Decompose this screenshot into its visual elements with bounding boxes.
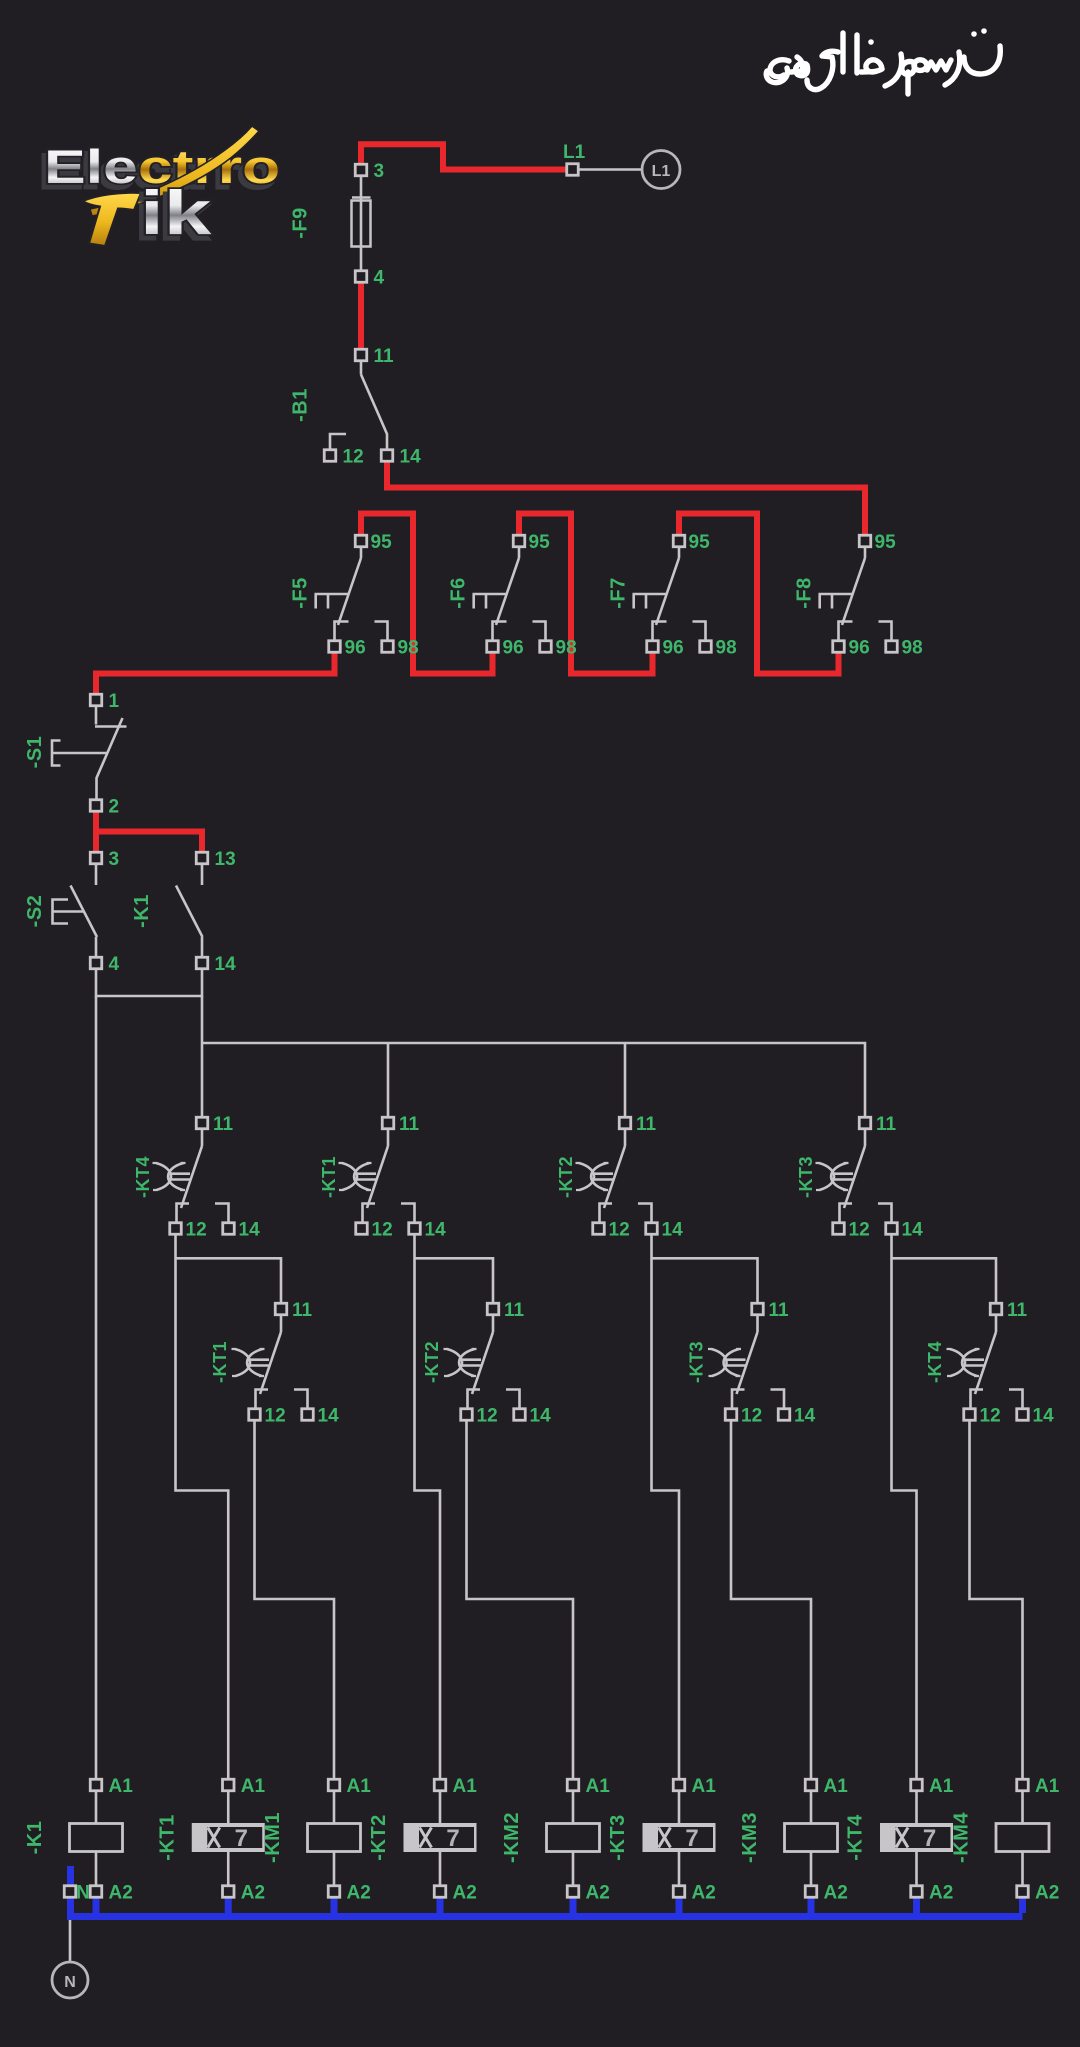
svg-text:-KT1: -KT1 bbox=[210, 1341, 230, 1383]
coil KT3 bbox=[678, 1791, 681, 1887]
svg-text:-KT1: -KT1 bbox=[319, 1156, 339, 1198]
svg-text:-K1: -K1 bbox=[24, 1821, 46, 1855]
svg-text:-KM4: -KM4 bbox=[951, 1812, 973, 1863]
wire terminal L1 to lamp L1 bbox=[578, 168, 641, 171]
svg-text:A1: A1 bbox=[1035, 1776, 1060, 1797]
svg-text:-B1: -B1 bbox=[290, 388, 312, 422]
wire row2 timer contact 12 to KM coil A1 (column 334) bbox=[255, 1421, 335, 1781]
timed contact KT2 row1 (pins 11/12/14) bbox=[576, 1114, 684, 1241]
pin A2 KM2 bbox=[567, 1886, 579, 1898]
terminal N bbox=[64, 1886, 76, 1898]
svg-text:14: 14 bbox=[400, 447, 422, 468]
wire (red) S1 pin 2 to S2 pin 3 bbox=[93, 811, 99, 854]
wire K1 coil rail (left) bbox=[95, 996, 98, 1780]
pin A1 KT1 bbox=[223, 1779, 235, 1791]
svg-text:-KT4: -KT4 bbox=[133, 1156, 153, 1198]
pin A1 KM3 bbox=[805, 1779, 817, 1791]
svg-text:-F8: -F8 bbox=[794, 577, 816, 609]
coil KM1 bbox=[333, 1791, 336, 1887]
svg-text:-KT3: -KT3 bbox=[687, 1341, 707, 1383]
svg-text:A2: A2 bbox=[109, 1883, 133, 1904]
pin 11 B1 bbox=[355, 349, 367, 361]
pin A1 KT4 bbox=[911, 1779, 923, 1791]
wire (red) F7.96 to F6.95 bbox=[519, 514, 653, 674]
fuse F9 bbox=[352, 176, 371, 271]
wire (red) branch to K1 pin 13 bbox=[96, 832, 202, 854]
pin 4 S2 bbox=[90, 957, 102, 969]
svg-text:3: 3 bbox=[374, 161, 385, 182]
signature text (Persian handwriting) bbox=[766, 28, 1000, 94]
svg-text:4: 4 bbox=[374, 268, 385, 289]
timed contact KT4 row1 (pins 11/12/14) bbox=[153, 1114, 261, 1241]
svg-text:-S1: -S1 bbox=[24, 736, 46, 769]
svg-text:A1: A1 bbox=[109, 1776, 134, 1797]
pin A2 KT1 bbox=[223, 1886, 235, 1898]
wire row1 timer contact to row2 contact 11 and to coil A1 (column 679) bbox=[652, 1235, 758, 1781]
svg-text:N: N bbox=[76, 1883, 90, 1904]
pin 3 S2 bbox=[90, 852, 102, 864]
pin 14 B1 bbox=[381, 450, 393, 462]
svg-text:12: 12 bbox=[343, 447, 364, 468]
wire row2 timer contact 12 to KM coil A1 (column 573) bbox=[467, 1421, 574, 1781]
wire coil A2 to neutral bus (blue) bbox=[225, 1895, 232, 1913]
timed contact KT3 row2 (pins 11/12/14) bbox=[708, 1300, 816, 1427]
start button S2 (NO) bbox=[53, 864, 98, 958]
svg-text:-KM2: -KM2 bbox=[501, 1812, 523, 1863]
svg-text:L1: L1 bbox=[652, 163, 671, 180]
wire coil A2 to neutral bus (blue) bbox=[808, 1895, 815, 1913]
pin A2 KM4 bbox=[1017, 1886, 1029, 1898]
svg-text:1: 1 bbox=[109, 691, 120, 712]
wire coil A2 to neutral bus (blue) bbox=[437, 1895, 444, 1913]
wire row2 timer contact 12 to KM coil A1 (column 811) bbox=[731, 1421, 811, 1781]
pin A1 KT2 bbox=[434, 1779, 446, 1791]
wire coil A2 to neutral bus (blue) bbox=[93, 1895, 100, 1913]
terminal L1 bbox=[567, 164, 579, 176]
svg-text:4: 4 bbox=[109, 954, 120, 975]
svg-text:13: 13 bbox=[215, 849, 236, 870]
svg-text:ik: ik bbox=[140, 178, 212, 248]
svg-text:-KM1: -KM1 bbox=[262, 1812, 284, 1863]
wire coil A2 to neutral bus (blue) bbox=[676, 1895, 683, 1913]
wire row2 timer contact 12 to KM coil A1 (column 1022.5) bbox=[970, 1421, 1023, 1781]
pin 3 F9 bbox=[355, 164, 367, 176]
wire row1 timer contact to row2 contact 11 and to coil A1 (column 440) bbox=[415, 1235, 494, 1781]
wire coil A2 to neutral bus (blue) bbox=[1019, 1895, 1026, 1913]
timed contact KT2 row2 (pins 11/12/14) bbox=[444, 1300, 552, 1427]
svg-text:A2: A2 bbox=[692, 1883, 716, 1904]
auxiliary contact K1 (NO) bbox=[176, 864, 203, 958]
pin 12 B1 bbox=[324, 450, 336, 462]
wire (red) fuse F9 pin4 to B1 pin 11 bbox=[358, 281, 364, 350]
svg-text:N: N bbox=[64, 1974, 76, 1991]
svg-text:A2: A2 bbox=[241, 1883, 265, 1904]
svg-text:14: 14 bbox=[215, 954, 237, 975]
svg-text:-KT3: -KT3 bbox=[607, 1814, 629, 1860]
pin A2 KM3 bbox=[805, 1886, 817, 1898]
svg-text:-F6: -F6 bbox=[448, 577, 470, 609]
coil KT2 bbox=[439, 1791, 442, 1887]
svg-text:-KT4: -KT4 bbox=[925, 1341, 945, 1383]
pin A1 K1 bbox=[90, 1779, 102, 1791]
svg-text:A1: A1 bbox=[453, 1776, 478, 1797]
wire (red) F5.96 to S1 pin 1 bbox=[96, 652, 335, 696]
pin A1 KM2 bbox=[567, 1779, 579, 1791]
timed contact KT1 row1 (pins 11/12/14) bbox=[339, 1114, 447, 1241]
timed contact KT4 row2 (pins 11/12/14) bbox=[947, 1300, 1055, 1427]
svg-text:-F7: -F7 bbox=[608, 577, 630, 609]
pin A2 K1 bbox=[90, 1886, 102, 1898]
svg-text:A2: A2 bbox=[824, 1883, 848, 1904]
svg-text:11: 11 bbox=[374, 346, 395, 367]
svg-text:3: 3 bbox=[109, 849, 120, 870]
svg-text:A2: A2 bbox=[347, 1883, 371, 1904]
wire coil A2 to neutral bus (blue) bbox=[913, 1895, 920, 1913]
wire row1 timer contact to row2 contact 11 and to coil A1 (column 916.5) bbox=[892, 1235, 997, 1781]
pin 13 K1 bbox=[196, 852, 208, 864]
wire coil A2 to neutral bus (blue) bbox=[570, 1895, 577, 1913]
wire distribution bus to timer contacts row 1 bbox=[202, 996, 865, 1118]
wire S2.4 / K1.14 junction to K1 coil rail bbox=[96, 969, 202, 997]
timed contact KT1 row2 (pins 11/12/14) bbox=[232, 1300, 340, 1427]
svg-text:A2: A2 bbox=[929, 1883, 953, 1904]
svg-text:A1: A1 bbox=[347, 1776, 372, 1797]
pin A2 KT3 bbox=[673, 1886, 685, 1898]
svg-text:-S2: -S2 bbox=[24, 895, 46, 928]
pin 1 S1 bbox=[90, 694, 102, 706]
svg-text:-F9: -F9 bbox=[290, 207, 312, 239]
coil KT1 bbox=[227, 1791, 230, 1887]
svg-text:A1: A1 bbox=[586, 1776, 611, 1797]
svg-text:A1: A1 bbox=[824, 1776, 849, 1797]
svg-text:A1: A1 bbox=[929, 1776, 954, 1797]
pin 14 K1 bbox=[196, 957, 208, 969]
coil K1 bbox=[95, 1791, 98, 1887]
wire L1 feed (red) from pin 3 up and right to terminal L1 bbox=[361, 144, 566, 169]
lamp L1 bbox=[642, 151, 680, 189]
wire (red) F6.96 to F5.95 bbox=[361, 514, 493, 674]
svg-text:-KT1: -KT1 bbox=[156, 1814, 178, 1860]
svg-text:-KT2: -KT2 bbox=[556, 1156, 576, 1198]
pin A1 KM4 bbox=[1017, 1779, 1029, 1791]
svg-text:-KT2: -KT2 bbox=[368, 1814, 390, 1860]
stop button S1 (NC) bbox=[52, 706, 127, 801]
coil KM3 bbox=[810, 1791, 813, 1887]
wire coil A2 to neutral bus (blue) bbox=[331, 1895, 338, 1913]
svg-text:-KM3: -KM3 bbox=[739, 1812, 761, 1863]
svg-text:-KT4: -KT4 bbox=[845, 1814, 867, 1861]
svg-text:A1: A1 bbox=[241, 1776, 266, 1797]
coil KM2 bbox=[572, 1791, 575, 1887]
svg-text:A2: A2 bbox=[453, 1883, 477, 1904]
svg-text:-K1: -K1 bbox=[131, 894, 153, 928]
overload relay contact F7 (pins 95/96/98) bbox=[633, 532, 737, 659]
svg-text:-KT3: -KT3 bbox=[796, 1156, 816, 1198]
pin A1 KM1 bbox=[328, 1779, 340, 1791]
svg-text:A2: A2 bbox=[1035, 1883, 1059, 1904]
svg-text:-F5: -F5 bbox=[290, 577, 312, 609]
svg-text:-KT2: -KT2 bbox=[422, 1341, 442, 1383]
pin A2 KT2 bbox=[434, 1886, 446, 1898]
pin A2 KT4 bbox=[911, 1886, 923, 1898]
overload relay contact F8 (pins 95/96/98) bbox=[819, 532, 923, 659]
lamp N bbox=[52, 1962, 88, 1998]
limit switch B1 bbox=[330, 361, 387, 451]
pin 4 F9 bbox=[355, 271, 367, 283]
logo ElectrroTik bbox=[40, 126, 280, 252]
wire (red) F8.96 to F7.95 bbox=[679, 514, 839, 674]
svg-text:L1: L1 bbox=[563, 142, 586, 163]
pin A1 KT3 bbox=[673, 1779, 685, 1791]
pin A2 KM1 bbox=[328, 1886, 340, 1898]
wire row1 timer contact to row2 contact 11 and to coil A1 (column 228.25) bbox=[176, 1235, 282, 1781]
wire N terminal to lamp N bbox=[69, 1898, 72, 1963]
overload relay contact F6 (pins 95/96/98) bbox=[473, 532, 577, 659]
coil KM4 bbox=[1021, 1791, 1024, 1887]
svg-text:A2: A2 bbox=[586, 1883, 610, 1904]
svg-text:2: 2 bbox=[109, 797, 120, 818]
overload relay contact F5 (pins 95/96/98) bbox=[315, 532, 419, 659]
svg-text:A1: A1 bbox=[692, 1776, 717, 1797]
wire (red) B1 pin 14 down and right to F8 pin 95 bbox=[387, 460, 865, 536]
neutral bus (blue) bbox=[67, 1866, 1023, 1917]
coil KT4 bbox=[915, 1791, 918, 1887]
timed contact KT3 row1 (pins 11/12/14) bbox=[816, 1114, 924, 1241]
pin 2 S1 bbox=[90, 800, 102, 812]
